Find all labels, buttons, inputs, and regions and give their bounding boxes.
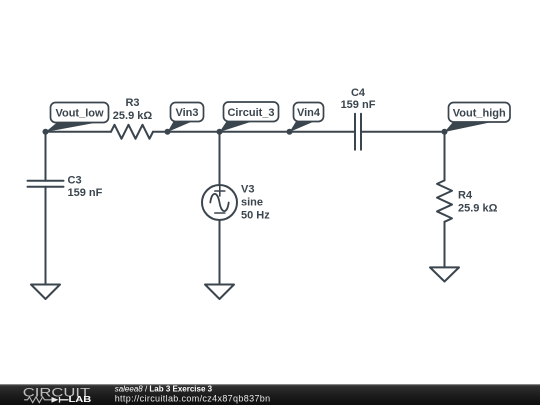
ground: [430, 267, 459, 281]
svg-text:159 nF: 159 nF: [68, 187, 103, 199]
label pointer Vin3: [168, 122, 193, 133]
wire: [444, 132, 446, 181]
ground: [205, 285, 234, 300]
label pointer Vin4: [290, 122, 315, 133]
svg-text:Vout_high: Vout_high: [453, 108, 506, 120]
svg-text:Vin3: Vin3: [175, 107, 198, 119]
footer bar: [0, 384, 540, 405]
node Vin4: [287, 129, 293, 135]
wire: [219, 220, 221, 285]
flag Vout_high: [449, 103, 511, 123]
wire: [361, 131, 445, 133]
flag Vin3: [171, 103, 204, 122]
svg-text:C3: C3: [68, 174, 82, 186]
resistor R3: [111, 125, 153, 139]
svg-text:saleea8 / Lab 3 Exercise 3: saleea8 / Lab 3 Exercise 3: [115, 385, 213, 394]
wire: [45, 187, 47, 285]
CircuitLab logo: [23, 386, 92, 404]
node Circuit_3: [217, 129, 223, 135]
voltage source V3: [202, 185, 237, 220]
flag Vout_low: [51, 103, 109, 123]
svg-text:http://circuitlab.com/cz4x87qb: http://circuitlab.com/cz4x87qb837bn: [115, 394, 271, 404]
svg-text:Vin4: Vin4: [297, 107, 321, 119]
capacitor C3: [28, 181, 64, 187]
wire: [153, 131, 355, 133]
svg-text:LAB: LAB: [69, 394, 92, 404]
svg-text:R4: R4: [458, 190, 473, 202]
ground: [31, 285, 60, 300]
svg-text:V3: V3: [241, 183, 254, 195]
wire: [219, 132, 221, 185]
wire: [444, 222, 446, 268]
flag Vin4: [294, 103, 324, 122]
node Vout_high: [442, 129, 448, 135]
resistor R4: [437, 180, 452, 221]
node Vout_low: [43, 129, 49, 135]
flag Circuit_3: [224, 102, 279, 122]
capacitor C4: [355, 114, 361, 150]
svg-text:25.9 kΩ: 25.9 kΩ: [113, 110, 153, 122]
svg-text:Vout_low: Vout_low: [55, 108, 104, 120]
wire: [46, 131, 112, 133]
label pointer Circuit_3: [220, 122, 253, 133]
svg-text:sine: sine: [241, 196, 263, 208]
label pointer Vout_low: [46, 123, 98, 133]
svg-text:50 Hz: 50 Hz: [241, 209, 270, 221]
svg-text:C4: C4: [351, 87, 366, 99]
node Vin3: [165, 129, 171, 135]
svg-text:25.9 kΩ: 25.9 kΩ: [458, 203, 498, 215]
svg-text:159 nF: 159 nF: [341, 99, 376, 111]
svg-text:Circuit_3: Circuit_3: [227, 107, 274, 119]
wire: [45, 132, 47, 181]
label pointer Vout_high: [445, 122, 493, 132]
svg-text:R3: R3: [125, 97, 139, 109]
